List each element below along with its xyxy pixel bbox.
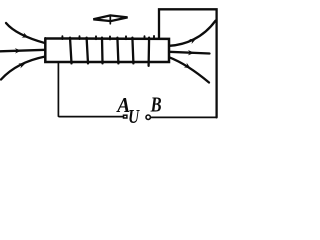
field line left top (6, 23, 45, 43)
arrowhead right top (189, 36, 197, 44)
arrowhead left bottom (18, 61, 26, 68)
arrowhead right middle (188, 50, 195, 56)
coil turn 1 (70, 38, 72, 64)
arrowhead left middle (15, 48, 22, 54)
wire top loop (159, 9, 217, 117)
arrowhead left top (22, 33, 30, 41)
field line right middle (169, 52, 209, 54)
field line left middle (0, 50, 45, 52)
field line right bottom (169, 57, 209, 82)
compass needle (93, 15, 127, 23)
coil winding bumps on top edge (62, 36, 154, 39)
svg-text:B: B (150, 92, 162, 116)
coil turn 2 (87, 38, 88, 64)
field line right top (169, 21, 215, 46)
terminal A (square) (124, 115, 127, 118)
coil turn 6 (147, 38, 150, 66)
terminal B (circle) (146, 115, 150, 119)
svg-text:U: U (128, 106, 140, 128)
coil turn 5 (132, 38, 133, 64)
coil body (45, 38, 169, 62)
coil turn 3 (101, 38, 104, 64)
field line left bottom (1, 57, 45, 80)
wire bottom left (58, 63, 122, 117)
wire bottom right (151, 116, 217, 118)
coil turn 4 (117, 38, 118, 64)
arrowhead right bottom (184, 63, 192, 71)
